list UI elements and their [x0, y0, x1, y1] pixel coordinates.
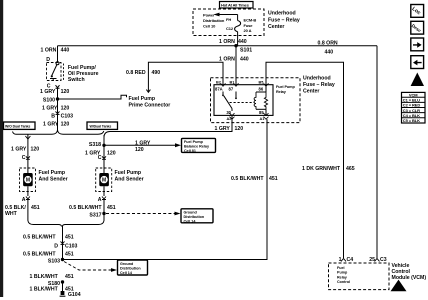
- svg-text:M: M: [102, 178, 106, 184]
- svg-text:A: A: [98, 197, 102, 203]
- svg-text:1 GRY: 1 GRY: [40, 89, 56, 95]
- right pump terminal A: [98, 186, 106, 220]
- svg-text:120: 120: [31, 146, 40, 152]
- pin 85 (A1): [265, 85, 267, 92]
- left wire label 1 GRY 120: [11, 146, 39, 152]
- svg-text:B: B: [51, 114, 55, 120]
- svg-text:MENU: MENU: [395, 288, 402, 290]
- svg-text:Cell 10: Cell 10: [203, 23, 216, 28]
- label ECM-B Fuse 20 A: [244, 17, 257, 33]
- svg-text:Distribution: Distribution: [120, 267, 141, 271]
- svg-text:S101: S101: [240, 48, 252, 54]
- label Fuel Pump / Oil Pressure Switch: [68, 65, 99, 83]
- svg-text:S100: S100: [43, 97, 55, 103]
- wire 1 GRY 120 S100 to C103 to rail: [57, 99, 59, 130]
- svg-text:87: 87: [229, 87, 234, 92]
- svg-text:Underhood: Underhood: [268, 11, 296, 17]
- underhood fuse-relay center box 2 (dashed): [211, 78, 301, 123]
- svg-text:1 BLK/WHT: 1 BLK/WHT: [30, 274, 59, 280]
- option tag W/O Dual Tanks: [4, 122, 36, 129]
- svg-text:Cell 81: Cell 81: [184, 149, 196, 153]
- label Vehicle Control Module (VCM): [392, 263, 427, 281]
- toolbar icon left arrow: [411, 56, 424, 69]
- svg-text:Distribution: Distribution: [203, 18, 225, 23]
- svg-text:490: 490: [152, 70, 161, 76]
- svg-text:A: A: [22, 197, 26, 203]
- svg-text:Switch: Switch: [68, 77, 85, 83]
- svg-text:Prime Connector: Prime Connector: [129, 103, 171, 109]
- svg-text:87A: 87A: [215, 87, 223, 92]
- svg-text:440: 440: [238, 39, 247, 45]
- svg-text:Fuel Pump: Fuel Pump: [115, 170, 142, 176]
- label Fuel Pump And Sender (right): [115, 170, 144, 182]
- relay: fuel pump relay: [214, 81, 273, 121]
- ground G104: [60, 282, 81, 298]
- svg-text:86: 86: [259, 87, 264, 92]
- svg-text:FH: FH: [226, 17, 231, 22]
- svg-text:C5 = BLK: C5 = BLK: [403, 118, 420, 123]
- dashed reference wire S317 to ground distribution: [106, 212, 181, 216]
- label Underhood Fuse-Relay Center (relay box): [303, 76, 335, 95]
- wire label 1 ORN 440 (below S101): [219, 57, 249, 63]
- dashed reference wire S103 to ground distribution: [64, 262, 117, 272]
- svg-text:Pump: Pump: [337, 271, 348, 275]
- svg-text:451: 451: [65, 251, 74, 257]
- contact 87 stub: [235, 92, 237, 98]
- toolbar icon Loc: [411, 5, 424, 18]
- svg-text:C: C: [22, 155, 26, 161]
- svg-text:ECM-B: ECM-B: [244, 17, 257, 22]
- svg-text:1 GRY: 1 GRY: [215, 126, 231, 132]
- svg-text:S318: S318: [89, 142, 101, 148]
- wire 0.8 RED 490 prime connector to relay 87A: [146, 62, 223, 92]
- left fuel pump and sender (motor): [20, 168, 36, 192]
- svg-text:Fuel Pump: Fuel Pump: [276, 85, 295, 89]
- wire 1 GRY 120 S318 to balance relay: [104, 143, 181, 147]
- node S180: [48, 280, 64, 287]
- svg-text:WHT: WHT: [5, 211, 18, 217]
- label Hot At All Times: [220, 2, 254, 9]
- VCM pin 25 C3: [369, 257, 387, 263]
- svg-text:D: D: [54, 244, 58, 250]
- relay coil: [256, 91, 266, 93]
- rail split for tanks options: [13, 130, 105, 158]
- svg-text:1 ORN: 1 ORN: [219, 39, 235, 45]
- relay coil link (dashed): [230, 102, 255, 104]
- label 0.5 BLK/WHT 451 (coil ground): [231, 176, 278, 182]
- wire label 0.8 ORN 440 (right): [318, 40, 338, 55]
- svg-text:Ground: Ground: [184, 211, 198, 215]
- reference box Ground Distribution Cell 14 (lower): [118, 260, 148, 275]
- switch text bracket: [63, 64, 65, 81]
- label Fuel Pump And Sender (left): [39, 170, 68, 182]
- svg-text:440: 440: [61, 47, 70, 53]
- svg-text:Hot At All Times: Hot At All Times: [221, 3, 249, 8]
- svg-text:Center: Center: [303, 89, 319, 95]
- connector C103 pin D: [54, 241, 77, 249]
- left wire label 0.5 BLK/WHT 451: [5, 205, 40, 217]
- wire 1 GRY 120 switch C to S100: [57, 88, 59, 100]
- svg-text:C4: C4: [347, 257, 354, 263]
- svg-text:A1: A1: [260, 117, 265, 121]
- svg-text:C12: C12: [226, 26, 234, 31]
- left pump terminal A: [22, 186, 30, 220]
- svg-text:B5: B5: [259, 81, 264, 85]
- wire label 1 BLK/WHT 451: [30, 274, 74, 280]
- svg-text:0.5 BLK/WHT: 0.5 BLK/WHT: [23, 234, 56, 240]
- VCM connector color table: [402, 92, 426, 123]
- label Underhood Fuse-Relay Center (top): [268, 11, 300, 30]
- relay armature from 30: [224, 96, 232, 109]
- wire label 1 BLK/WHT 451: [30, 286, 74, 292]
- svg-text:120: 120: [235, 126, 244, 132]
- label Fuel Pump Relay Control: [337, 266, 350, 284]
- fuse ECM-B 20A: [235, 15, 241, 46]
- toolbar icon Desc: [411, 21, 424, 34]
- svg-text:465: 465: [346, 166, 355, 172]
- svg-text:120: 120: [107, 150, 116, 156]
- VCM pin 1 C4: [339, 257, 354, 263]
- svg-text:1: 1: [339, 257, 342, 263]
- svg-text:120: 120: [61, 89, 70, 95]
- svg-text:W/O Dual Tanks: W/O Dual Tanks: [5, 125, 30, 129]
- svg-text:B1: B1: [230, 81, 235, 85]
- label Fuel Pump Relay: [276, 85, 295, 94]
- label 1 DK GRN/WHT 465: [302, 166, 355, 172]
- svg-text:1 GRY: 1 GRY: [43, 121, 59, 127]
- svg-text:0.5 BLK/WHT: 0.5 BLK/WHT: [231, 176, 264, 182]
- wire 1 GRY 120 relay 30 to pumps: [104, 115, 232, 137]
- svg-text:85: 85: [259, 110, 264, 115]
- wire label 1 ORN 440 (fuse to S101): [219, 39, 247, 45]
- svg-text:G104: G104: [68, 292, 81, 298]
- wire 1 ORN 440 to oil pressure switch D: [57, 46, 59, 62]
- VCM box (dashed): [329, 263, 390, 290]
- svg-text:451: 451: [269, 176, 278, 182]
- reference box Fuel Pump Balance Relay Cell 81: [182, 138, 216, 153]
- svg-text:25: 25: [369, 257, 375, 263]
- terminal D (oil pressure switch): [46, 57, 59, 65]
- svg-text:And Sender: And Sender: [115, 176, 144, 182]
- wire DK GRN/WHT relay 86 to VCM pin C4: [266, 62, 344, 258]
- svg-text:Center: Center: [268, 24, 284, 30]
- terminal C (oil pressure switch): [47, 83, 60, 89]
- svg-text:S317: S317: [89, 213, 101, 219]
- svg-text:451: 451: [31, 205, 40, 211]
- label Fuel Pump Prime Connector: [129, 96, 171, 109]
- option tag W/Dual Tanks: [87, 122, 118, 129]
- node S317: [89, 212, 105, 219]
- node S318: [89, 142, 106, 148]
- svg-text:Fuse – Relay: Fuse – Relay: [268, 17, 300, 23]
- ground wire S103 to relay coil A1: [63, 119, 268, 259]
- wire S101 bus horizontal: [58, 45, 378, 47]
- wire label 1 GRY 120 (at C103): [43, 121, 69, 127]
- svg-text:Cell 14: Cell 14: [184, 219, 197, 223]
- connector C103 pin B: [51, 111, 73, 119]
- svg-text:451: 451: [107, 205, 116, 211]
- svg-text:1 GRY: 1 GRY: [42, 105, 58, 111]
- svg-text:MENU: MENU: [414, 83, 421, 85]
- reference box Ground Distribution Cell 14 (upper): [181, 209, 213, 224]
- svg-text:Underhood: Underhood: [303, 76, 331, 82]
- relay coil resistor: [264, 92, 267, 109]
- wire 0.8 ORN 440 to VCM pin C3: [376, 46, 378, 258]
- svg-text:Fuel Pump: Fuel Pump: [184, 140, 204, 144]
- svg-text:Cell 14: Cell 14: [120, 271, 133, 275]
- wire label 0.5 BLK/WHT 451: [23, 234, 74, 240]
- svg-text:Fuel Pump: Fuel Pump: [129, 96, 156, 102]
- wire stub S100 to fuel pump prime connector: [58, 95, 127, 99]
- svg-text:0.8 RED: 0.8 RED: [126, 70, 146, 76]
- svg-text:C103: C103: [61, 114, 74, 120]
- svg-text:451: 451: [65, 234, 74, 240]
- svg-text:W/Dual Tanks: W/Dual Tanks: [90, 125, 112, 129]
- svg-text:440: 440: [240, 57, 249, 63]
- svg-text:C3: C3: [380, 257, 387, 263]
- reference Power Distribution Cell 10: [203, 13, 225, 29]
- node S100: [43, 97, 59, 103]
- svg-text:20 A: 20 A: [244, 28, 252, 33]
- wire label 0.5 BLK/WHT 451: [23, 251, 74, 257]
- svg-text:Relay: Relay: [337, 275, 348, 279]
- svg-text:451: 451: [65, 274, 74, 280]
- right pump terminal C: [98, 155, 106, 173]
- right wire label 0.5 BLK/WHT 451: [69, 205, 116, 211]
- svg-text:Fuse – Relay: Fuse – Relay: [303, 82, 335, 88]
- switch: fuel pump / oil pressure switch: [47, 63, 62, 82]
- svg-text:Module (VCM): Module (VCM): [392, 275, 427, 281]
- svg-text:Fuse: Fuse: [244, 23, 254, 28]
- svg-text:1 DK GRN/WHT: 1 DK GRN/WHT: [302, 166, 341, 172]
- scan edge bar: [0, 0, 3, 297]
- label 0.8 RED 490: [126, 70, 160, 76]
- svg-text:Ground: Ground: [120, 262, 134, 266]
- toolbar warning triangle: [411, 73, 424, 87]
- node S103: [48, 258, 64, 265]
- svg-text:120: 120: [135, 147, 144, 153]
- svg-text:1 ORN: 1 ORN: [41, 47, 57, 53]
- svg-text:Distribution: Distribution: [184, 215, 205, 219]
- underhood fuse-relay center box (top, dashed): [193, 9, 264, 36]
- label 1 GRY 120 (relay output): [215, 126, 244, 132]
- toolbar icon right arrow: [411, 38, 424, 51]
- contact 87A stub: [222, 92, 224, 95]
- svg-text:S103: S103: [48, 259, 60, 265]
- svg-text:1 ORN: 1 ORN: [219, 57, 235, 63]
- wire 1 GRY 120 S318 down: [103, 145, 105, 158]
- svg-text:Fuel: Fuel: [337, 266, 345, 270]
- wire 1 ORN 440 S101 to relay 87: [235, 46, 237, 85]
- left pump terminal C: [22, 155, 30, 173]
- svg-text:0.5 BLK/WHT: 0.5 BLK/WHT: [23, 251, 56, 257]
- svg-text:1 BLK/WHT: 1 BLK/WHT: [30, 286, 59, 292]
- svg-text:Balance Relay: Balance Relay: [184, 145, 210, 149]
- node S101: [234, 44, 252, 54]
- svg-text:1 GRY: 1 GRY: [11, 146, 27, 152]
- warning triangle (VCM note): [391, 280, 407, 292]
- svg-text:Control: Control: [337, 280, 350, 284]
- svg-text:0.5 BLK/WHT: 0.5 BLK/WHT: [69, 205, 102, 211]
- svg-text:C103: C103: [65, 244, 78, 250]
- svg-text:And Sender: And Sender: [39, 176, 68, 182]
- merge brace of pump grounds: [28, 221, 104, 260]
- svg-text:Fuel Pump: Fuel Pump: [39, 170, 66, 176]
- arrow to power distribution: [214, 13, 238, 17]
- svg-text:120: 120: [61, 105, 70, 111]
- svg-text:1 GRY: 1 GRY: [135, 141, 151, 147]
- svg-text:B2: B2: [216, 81, 221, 85]
- svg-text:M: M: [26, 178, 30, 184]
- svg-text:Power: Power: [203, 13, 215, 18]
- svg-text:440: 440: [325, 49, 334, 55]
- svg-text:Relay: Relay: [276, 90, 287, 94]
- svg-text:C: C: [98, 155, 102, 161]
- svg-text:120: 120: [61, 121, 70, 127]
- svg-text:0.8 ORN: 0.8 ORN: [318, 40, 338, 46]
- wire label 1 ORN 440 (left drop): [41, 47, 70, 53]
- right fuel pump and sender (motor): [96, 168, 112, 192]
